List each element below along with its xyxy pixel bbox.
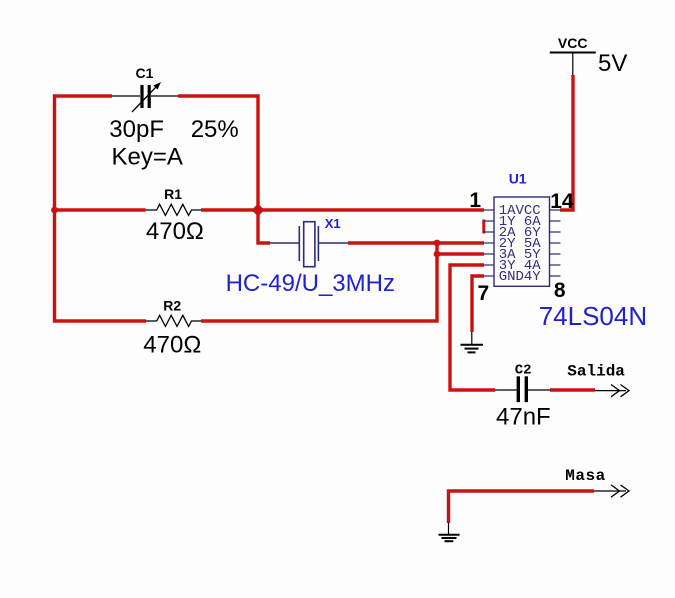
svg-text:U1: U1 bbox=[509, 171, 527, 187]
node Salida output arrow bbox=[595, 385, 629, 397]
value label 30pF bbox=[109, 116, 164, 143]
resistor R1 bbox=[146, 204, 201, 215]
svg-text:C1: C1 bbox=[136, 65, 154, 81]
label R1 bbox=[164, 186, 182, 202]
wire hook pin 1Y to pin 2A bbox=[482, 220, 485, 234]
wire R2 row right segment up node vertical to crystal row bbox=[201, 243, 437, 321]
svg-text:Masa: Masa bbox=[565, 467, 605, 485]
value label 470ohm R1 bbox=[146, 218, 204, 245]
svg-text:470Ω: 470Ω bbox=[143, 332, 201, 359]
capacitor C2 bbox=[495, 376, 550, 402]
svg-text:R1: R1 bbox=[164, 186, 182, 202]
svg-text:8: 8 bbox=[554, 279, 566, 302]
pin number 1 bbox=[469, 189, 481, 212]
svg-text:C2: C2 bbox=[515, 363, 532, 379]
power VCC symbol bbox=[550, 53, 596, 76]
label C1 bbox=[136, 65, 154, 81]
label Masa bbox=[565, 467, 605, 485]
wire crystal right to junction to IC pin 2Y bbox=[348, 241, 484, 244]
svg-text:GND4Y: GND4Y bbox=[499, 269, 542, 285]
pin labels row 2Y 5A bbox=[499, 236, 542, 252]
value label 5V bbox=[598, 50, 627, 77]
node Masa output arrow bbox=[594, 485, 629, 497]
label R2 bbox=[163, 298, 181, 314]
svg-text:HC-49/U_3MHz: HC-49/U_3MHz bbox=[226, 270, 395, 297]
wire R1 row: R1 to IC pin 1 bbox=[201, 208, 484, 211]
value label 47nF bbox=[496, 403, 551, 430]
svg-text:5V: 5V bbox=[598, 50, 627, 77]
ground symbol below pin 7 bbox=[461, 332, 484, 352]
junction dot crystal/pin2Y node bbox=[434, 240, 441, 247]
svg-text:VCC: VCC bbox=[558, 35, 588, 51]
svg-text:R2: R2 bbox=[163, 298, 181, 314]
wire IC pin 3Y down to C2 bbox=[450, 265, 495, 390]
pin labels row 1A VCC bbox=[499, 203, 541, 219]
pin labels row 1Y 6A bbox=[499, 214, 542, 230]
wire top segment right of C1 down to crystal stub bbox=[178, 96, 270, 243]
wire IC pin 14 up to VCC bbox=[560, 75, 573, 210]
pin number 14 bbox=[550, 190, 574, 213]
wire IC pin 7 GND down to ground bbox=[472, 276, 484, 332]
label VCC bbox=[558, 35, 588, 51]
pin number 7 bbox=[478, 282, 490, 305]
pin labels row GND 4Y bbox=[499, 269, 542, 285]
op-amp U1 74LS04N hex inverter box bbox=[484, 197, 561, 286]
ground symbol Masa bbox=[439, 523, 460, 541]
value label Key=A bbox=[112, 144, 183, 171]
pin number 8 bbox=[554, 279, 566, 302]
value label 74LS04N bbox=[539, 301, 647, 331]
pin labels row 3Y 4A bbox=[499, 258, 542, 274]
svg-text:30pF: 30pF bbox=[109, 116, 164, 143]
svg-text:Salida: Salida bbox=[567, 362, 625, 380]
svg-text:7: 7 bbox=[478, 282, 490, 305]
wire R1 row: left junction to R1 bbox=[55, 208, 146, 211]
wire junction to IC pin 3A bbox=[437, 252, 484, 255]
value label 25% bbox=[191, 116, 239, 143]
crystal X1 bbox=[270, 222, 348, 267]
wire Masa: ground up and right to arrow bbox=[449, 491, 595, 523]
svg-text:Key=A: Key=A bbox=[112, 144, 183, 171]
wire left loop: R2 row left, left rail up, top segment left of C1 bbox=[55, 96, 147, 321]
label C2 bbox=[515, 363, 532, 379]
label U1 bbox=[509, 171, 527, 187]
pin labels row 2A 6Y bbox=[499, 225, 542, 241]
label Salida bbox=[567, 362, 625, 380]
value label HC-49/U_3MHz bbox=[226, 270, 395, 297]
junction dot node A (left rail / R1) bbox=[51, 207, 58, 214]
svg-text:74LS04N: 74LS04N bbox=[539, 301, 647, 331]
resistor R2 bbox=[146, 315, 201, 326]
junction dot pin3A node bbox=[434, 251, 441, 258]
svg-text:14: 14 bbox=[550, 190, 574, 213]
pin labels row 3A 5Y bbox=[499, 247, 542, 263]
svg-text:47nF: 47nF bbox=[496, 403, 551, 430]
label X1 bbox=[325, 216, 341, 231]
capacitor C1 (variable) bbox=[112, 82, 178, 112]
svg-text:470Ω: 470Ω bbox=[146, 218, 204, 245]
junction dot node B (C1 right / R1 right / pin1) bbox=[252, 204, 265, 217]
svg-text:X1: X1 bbox=[325, 216, 341, 231]
svg-text:25%: 25% bbox=[191, 116, 239, 143]
wire C2 right to Salida arrow bbox=[550, 388, 595, 391]
value label 470ohm R2 bbox=[143, 332, 201, 359]
svg-text:1: 1 bbox=[469, 189, 481, 212]
